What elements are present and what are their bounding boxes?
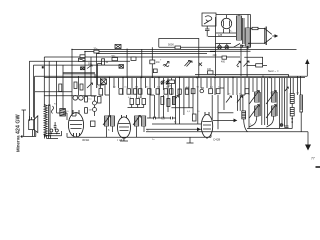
component capacitor circle k xyxy=(200,89,204,93)
svg-text:T: T xyxy=(160,60,162,62)
component resistor row2 a xyxy=(130,99,134,105)
bottom wire mid xyxy=(67,133,211,137)
wire main bus B xyxy=(44,77,305,79)
component resistor row1 j xyxy=(191,89,195,94)
component resistor row1 f xyxy=(148,89,152,95)
wire under rectifier xyxy=(208,33,236,37)
resistor on W4 xyxy=(80,55,85,58)
resistor left of tube3 xyxy=(193,114,197,121)
trimmer arrow c xyxy=(237,96,243,103)
AVC wire xyxy=(171,107,193,109)
wire stub tube3 bottom xyxy=(206,138,208,140)
speaker bottom lead xyxy=(24,130,36,137)
wire vertical x85 xyxy=(84,52,86,96)
hook at 190 xyxy=(187,137,194,143)
wire verticals between tubes xyxy=(150,95,168,118)
hook padder to bus xyxy=(244,119,248,132)
wire vertical x49 xyxy=(48,61,50,106)
component resistor row1 m xyxy=(216,89,220,94)
tube V3 converter xyxy=(201,112,212,138)
component resistor row2 c xyxy=(142,99,146,105)
coil C junction dots xyxy=(291,118,293,123)
svg-text:5000: 5000 xyxy=(168,43,174,47)
wire top bus W4 xyxy=(96,53,207,55)
speaker cone leads xyxy=(265,29,272,44)
oscillator coil B winding 1 xyxy=(272,92,276,102)
capacitor left xyxy=(54,122,57,130)
junction dots bus xyxy=(51,49,290,135)
coil B core xyxy=(276,92,278,116)
bottom left wire xyxy=(44,134,61,136)
speaker leads xyxy=(248,29,265,44)
speaker feed resistor xyxy=(252,27,258,29)
coil B arrows xyxy=(266,91,276,118)
svg-text:1k: 1k xyxy=(106,62,109,64)
wire top bus W1 xyxy=(159,46,251,48)
speaker bar xyxy=(265,27,267,46)
wires into tube3 xyxy=(146,124,202,131)
component resistor row1 c xyxy=(127,89,131,95)
capacitor cluster mid-left b xyxy=(131,57,136,60)
IF transformer 1 xyxy=(103,116,115,127)
coupling caps row y118 xyxy=(147,117,176,120)
speaker lead tick xyxy=(21,135,24,137)
svg-text:2M: 2M xyxy=(166,87,169,89)
resistor vertical left161 xyxy=(161,97,164,105)
wire vertical x44 xyxy=(43,57,45,106)
grid feed arrow tube3 xyxy=(213,119,237,122)
wire top bus W3 xyxy=(85,51,216,53)
cap under magic eye xyxy=(205,26,210,37)
capacitor small below xyxy=(153,69,157,73)
oscillator coil A winding 2 xyxy=(255,106,259,116)
svg-text:50: 50 xyxy=(197,111,200,113)
wire vertical x141 xyxy=(141,49,143,77)
resistor below bus mid xyxy=(168,80,175,88)
wire top bus W6 xyxy=(29,60,130,62)
wire main bus A xyxy=(35,75,308,77)
IFT bottom stubs xyxy=(107,127,145,138)
coil A arrows xyxy=(249,91,259,118)
trimmer arrows mid top xyxy=(185,61,193,67)
antenna coil C winding 1 xyxy=(290,93,294,103)
svg-text:10n: 10n xyxy=(156,61,161,64)
wire top right block left xyxy=(215,17,217,51)
resistor on x60 line xyxy=(59,84,62,92)
component resistor row2 b xyxy=(136,99,140,105)
padder coil right of tube3 xyxy=(242,111,246,119)
resistor vertical x103 xyxy=(102,59,109,65)
resistor on W5 xyxy=(150,47,161,77)
component resistor row1 b xyxy=(119,89,123,95)
resistor above bus (100) xyxy=(207,68,213,74)
oscillator coil A winding 1 xyxy=(255,92,259,102)
tube V1 output xyxy=(68,110,83,137)
svg-text:Minerva 424 GW: Minerva 424 GW xyxy=(16,113,22,152)
wire top bus W2 xyxy=(72,48,297,50)
svg-text:A: A xyxy=(108,129,110,132)
svg-text:C428: C428 xyxy=(213,138,221,142)
resistor stack right of tube1 b xyxy=(85,108,88,114)
capacitor bars right xyxy=(284,126,288,128)
resistor on W1 (5000) xyxy=(168,43,181,50)
IF transformer 2 xyxy=(133,116,146,127)
title text Minerva 424 GW xyxy=(16,113,22,152)
capacitor X box mid-left xyxy=(101,79,107,84)
wire right upper segment xyxy=(195,74,289,76)
rectifier tube V4 xyxy=(221,15,231,33)
wire left bottom link xyxy=(48,131,62,136)
svg-text:50: 50 xyxy=(66,111,69,113)
trimmer arrow near bus right xyxy=(237,61,241,66)
rect top right mid xyxy=(244,57,262,64)
wire left edge vertical V33 xyxy=(33,65,35,117)
wire vertical x72 xyxy=(71,49,73,116)
circle pair right of tube1 xyxy=(93,96,97,116)
component box 186 xyxy=(185,89,188,94)
tiny labels row xyxy=(54,31,300,142)
svg-text:B: B xyxy=(147,130,149,132)
field coil wavy xyxy=(52,106,54,114)
wire coil bottoms xyxy=(247,128,292,130)
component resistor row1 a xyxy=(99,89,103,96)
wire vertical x96 xyxy=(96,54,98,88)
speaker top lead xyxy=(29,116,31,120)
component box 179 xyxy=(178,89,181,94)
svg-text:0,1: 0,1 xyxy=(89,99,93,101)
wire left jogs xyxy=(57,96,96,120)
resistor small left mid xyxy=(98,97,102,104)
hatched box left of tube1 xyxy=(60,109,66,117)
component resistor row1 e xyxy=(139,89,143,95)
loop wire left of comb xyxy=(98,64,104,86)
coil A bottom hook xyxy=(249,116,257,127)
svg-text:5n: 5n xyxy=(146,87,149,89)
trimmer arrow right xyxy=(244,61,250,67)
winding top stubs xyxy=(239,15,248,29)
svg-text:L3: L3 xyxy=(297,93,300,95)
wire left edge vertical V34 xyxy=(34,76,36,136)
antenna coil C winding 2 xyxy=(290,108,294,116)
left input T stub xyxy=(22,110,27,137)
svg-text:1M: 1M xyxy=(89,110,92,112)
component resistor row1 g xyxy=(156,89,160,95)
comb verticals middle xyxy=(101,78,169,115)
wire top right block top xyxy=(216,15,251,48)
component resistor row1 i xyxy=(170,89,174,95)
wire jog row2 xyxy=(128,105,144,108)
svg-text:a: a xyxy=(250,124,252,126)
loudspeaker xyxy=(29,116,38,133)
component resistor row1 n xyxy=(245,89,249,94)
magic eye box xyxy=(202,13,216,26)
component resistor row1 h xyxy=(164,89,168,95)
wire vertical x56 xyxy=(56,61,58,113)
electrolytic caps right xyxy=(280,124,283,127)
svg-text:0,1: 0,1 xyxy=(210,87,214,89)
wire left horizontals xyxy=(35,92,97,96)
output transformer winding 1 xyxy=(44,105,47,137)
trimmer arrow b xyxy=(226,96,232,103)
svg-text:0,5: 0,5 xyxy=(157,87,161,89)
svg-text:1M: 1M xyxy=(135,87,138,89)
svg-text:2M: 2M xyxy=(100,95,103,97)
lamp wires xyxy=(216,44,234,48)
svg-text:50: 50 xyxy=(113,87,116,89)
core lines xyxy=(243,18,244,44)
resistor under lamps xyxy=(221,56,227,63)
wire right mid jogs xyxy=(185,88,245,95)
speaker arrow xyxy=(272,35,277,37)
svg-text:428: 428 xyxy=(213,54,218,57)
wire right of tube3 horizontal xyxy=(218,112,233,114)
resistor hatched 173 xyxy=(172,97,175,105)
svg-text:303Ω: 303Ω xyxy=(82,138,90,142)
svg-text:77: 77 xyxy=(311,157,315,161)
dial box xyxy=(159,39,199,78)
corner mark bottom right xyxy=(316,166,320,168)
choke winding 2 xyxy=(245,28,250,46)
junction dots top right xyxy=(264,28,265,44)
wire tube1 top xyxy=(72,113,76,116)
transformer bottom ticks xyxy=(45,135,59,139)
svg-text:5n: 5n xyxy=(174,122,177,124)
coil A core xyxy=(259,92,261,116)
wire block drops xyxy=(216,44,242,76)
wire left edge vertical V29 xyxy=(28,61,30,121)
wire block bottom xyxy=(210,50,251,52)
wire top bus W5 xyxy=(44,56,240,58)
resistor stack right of tube1 a xyxy=(85,96,88,102)
pilot lamp 1 xyxy=(218,45,222,49)
wire right vertical x247 xyxy=(246,46,248,76)
choke winding 1 xyxy=(237,16,242,40)
junction dot block xyxy=(237,66,238,67)
wire vertical x63 xyxy=(62,65,64,113)
capacitor circle pair mid xyxy=(161,80,170,85)
wire top bus W7 xyxy=(34,64,121,66)
circles above tube1 xyxy=(73,96,83,101)
svg-text:Netz ~ =: Netz ~ = xyxy=(268,69,279,73)
svg-text:400: 400 xyxy=(221,60,226,63)
component resistor row1 l xyxy=(209,89,213,94)
capacitor box x120 xyxy=(119,65,124,69)
component resistor row1 d xyxy=(134,89,138,95)
svg-text:0,1: 0,1 xyxy=(187,111,191,113)
pilot lamp 2 xyxy=(225,45,229,49)
svg-text:1Z8: 1Z8 xyxy=(218,34,223,37)
trimmer arrow a xyxy=(174,96,179,102)
comb verticals right-middle xyxy=(172,78,250,124)
small cross mark xyxy=(199,63,203,67)
resistor between tubes xyxy=(91,121,96,127)
capacitor box X left xyxy=(81,64,93,70)
condenser with scribble xyxy=(79,58,86,61)
svg-text:50: 50 xyxy=(197,87,200,89)
wire verticals right of tube3 xyxy=(212,95,243,129)
wire vertical x91 xyxy=(90,57,92,96)
wire vertical x127 xyxy=(126,49,128,78)
output transformer winding 2 xyxy=(49,105,51,137)
antenna arrow xyxy=(306,63,308,76)
electrolytic cap circles xyxy=(50,129,59,132)
resistor right mid xyxy=(256,64,263,67)
tube V2 IF xyxy=(118,115,131,138)
junction box small xyxy=(42,66,44,68)
tube2 bottom stub xyxy=(120,138,128,141)
trimmer arrows far right small xyxy=(285,87,288,91)
resistor vertical left167 xyxy=(167,99,170,107)
small winding far right xyxy=(300,95,303,112)
comb verticals far right xyxy=(249,76,301,132)
oscillator coil B winding 2 xyxy=(272,106,276,116)
corner marks x241 xyxy=(240,45,243,50)
bottom bus right xyxy=(146,131,308,133)
svg-text:100: 100 xyxy=(207,68,212,71)
resistor on W3 xyxy=(94,49,100,53)
pickup wavy symbol xyxy=(163,62,169,67)
wire vertical x78 xyxy=(78,76,80,95)
capacitor on W2 xyxy=(115,45,121,49)
svg-text:1n: 1n xyxy=(152,139,155,141)
svg-text:5+: 5+ xyxy=(230,31,233,33)
capacitor cluster mid-left a xyxy=(112,56,118,61)
stub coil2 down xyxy=(247,46,249,49)
wire resistor leads xyxy=(247,64,267,66)
svg-text:6T: 6T xyxy=(228,94,231,96)
wire tube2 top stubs xyxy=(105,94,154,96)
switch xyxy=(234,44,245,48)
mains down arrow xyxy=(307,132,309,146)
small comps above tube1 xyxy=(74,82,93,90)
coil B bottom hook xyxy=(267,116,274,127)
double wire left mid xyxy=(63,73,95,78)
